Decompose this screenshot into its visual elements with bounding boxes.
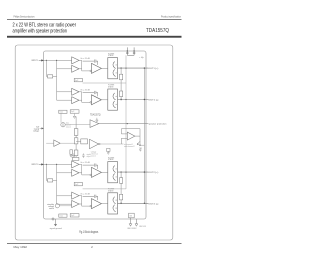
wire ch1p stage outputs	[79, 60, 90, 71]
wire input ch2 to amps	[44, 163, 72, 165]
junction dot buffer out	[127, 123, 128, 124]
bias box ch2m	[70, 214, 79, 217]
cap ref symbol	[82, 153, 84, 158]
wire output ch1m	[118, 99, 149, 101]
bias box ch1m	[70, 110, 79, 113]
wire ch1p stage2 out	[79, 68, 82, 70]
feedback resistor ch2	[48, 179, 53, 182]
power stage box ch1m	[108, 89, 118, 110]
output transistor curve ch1p upper	[113, 62, 116, 69]
wire ch2m stage2 out	[79, 203, 82, 205]
figure outer box	[15, 45, 173, 240]
wire T7 output	[60, 142, 74, 144]
op-amp ch2p input stage 2	[72, 169, 79, 176]
transistor dot upper	[115, 167, 118, 170]
wire rail to stage4 ch2	[57, 203, 72, 205]
mute box ch1	[59, 110, 67, 113]
svg-text:INPUT 2: INPUT 2	[32, 164, 39, 166]
wire T7 input	[46, 142, 54, 144]
inverting input bubble ch2m	[90, 205, 92, 207]
svg-text:Product specification: Product specification	[161, 14, 181, 18]
signal ground symbol	[54, 224, 57, 226]
svg-text:speaker protection: speaker protection	[149, 123, 168, 126]
op-amp ch1m input stage 1	[72, 88, 79, 95]
BTL feedback resistor ch1	[120, 74, 123, 80]
wire output ch1p	[118, 67, 149, 69]
signal ground stub	[55, 219, 57, 224]
op-amp ch2m input stage 1	[72, 192, 79, 199]
svg-text:Gv = 26 dB: Gv = 26 dB	[80, 58, 90, 60]
capacitor ch2m coupling	[83, 195, 98, 200]
junction dot sense OUT1+	[144, 67, 145, 68]
bottom box	[129, 213, 135, 218]
IC chip outline	[44, 51, 147, 219]
zener D1	[139, 148, 141, 151]
standby circle	[55, 204, 59, 208]
wire ch1m stage outputs	[79, 92, 90, 103]
ground ref symbol b	[96, 118, 98, 122]
protection sense rail	[143, 68, 145, 203]
capacitor ch1p coupling	[83, 60, 98, 65]
svg-text:STAGE: STAGE	[108, 54, 114, 57]
svg-text:Gv = 26 dB: Gv = 26 dB	[80, 162, 90, 164]
feedback rail ch1	[46, 60, 47, 76]
junction dot input ch1	[46, 60, 47, 61]
svg-text:STAGE: STAGE	[108, 158, 114, 161]
junction dot rail ch1	[56, 60, 57, 61]
divider rail	[75, 117, 77, 158]
op-amp ch2p input stage 1	[72, 161, 79, 168]
capacitor ch1m coupling	[83, 91, 98, 96]
output transistor curve ch1m upper	[113, 93, 116, 100]
op-amp ch1p input stage 1	[72, 57, 79, 64]
transistor dot lower	[115, 71, 118, 74]
current source circle	[61, 123, 65, 127]
op-amp ch1m input stage 2	[72, 97, 79, 104]
footer rule	[7, 243, 182, 245]
svg-text:OUT2 (+): OUT2 (+)	[148, 172, 158, 174]
wire ch1m stage2 out	[79, 99, 82, 101]
comparator box ground	[107, 151, 109, 154]
junction dot Vp left	[127, 50, 128, 51]
transistor Q1 emitter arrow	[137, 141, 140, 144]
divider bottom box	[72, 157, 79, 160]
output transistor curve ch2p lower	[113, 174, 116, 181]
BTL feedback line ch1	[120, 68, 122, 99]
junction dot rail ch2	[56, 164, 57, 165]
power stage box ch2m	[108, 193, 118, 214]
junction dot output ch2m	[120, 203, 121, 204]
wire power amp to stage ch2m	[101, 203, 107, 205]
transistor Q1 collector line	[139, 136, 141, 145]
transistor dot lower	[115, 103, 118, 106]
junction dot rail OUT1-	[125, 99, 126, 100]
svg-text:source: source	[66, 126, 71, 129]
wire comparator out	[100, 143, 123, 145]
output transistor curve ch2m lower	[113, 205, 116, 212]
wire rail to stage2 ch2	[57, 172, 72, 174]
wire input ch1 to amps	[44, 59, 72, 61]
wire box to current source	[60, 114, 62, 123]
GND2 stub	[135, 219, 137, 224]
svg-text:Vp/2: Vp/2	[71, 111, 74, 113]
bias box ch1p	[74, 78, 82, 81]
svg-text:MBC438: MBC438	[139, 226, 146, 228]
junction dot sense OUT2-	[144, 203, 145, 204]
capacitor C1 plates	[126, 52, 128, 53]
inverting input bubble ch1m	[90, 102, 92, 104]
svg-text:source: source	[91, 155, 96, 158]
wire feedback resistor to rail ch2	[53, 179, 57, 181]
wire ch2m stage outputs	[79, 196, 90, 207]
wire Vp rail stub right	[133, 47, 135, 55]
BTL feedback resistor ch2	[120, 178, 123, 184]
transistor dot upper	[115, 63, 118, 66]
transistor dot upper	[115, 95, 118, 98]
comparator U6 bubble	[99, 143, 101, 145]
svg-text:OUT1 (+): OUT1 (+)	[148, 68, 158, 70]
op-amp ch1p power driver	[92, 63, 102, 73]
op-amp ch1p input stage 2	[72, 65, 79, 72]
input arrow INPUT 2	[39, 164, 44, 166]
wire standby to amps	[59, 205, 71, 207]
power stage box ch2p	[108, 162, 118, 183]
input dist rail ch1	[56, 60, 58, 100]
wire rail to stage2 ch1	[57, 68, 72, 70]
ground ref symbol a	[73, 114, 76, 119]
header rule	[7, 19, 182, 21]
svg-text:TDA1557Q: TDA1557Q	[146, 28, 169, 34]
wire feedback resistor to rail ch1	[53, 75, 57, 77]
wire cap bus	[127, 54, 134, 56]
svg-text:Fig.1 Block diagram.: Fig.1 Block diagram.	[79, 230, 99, 234]
svg-text:INPUT 1: INPUT 1	[32, 60, 39, 62]
op-amp ch2m power driver	[92, 199, 102, 209]
svg-text:Vp/2: Vp/2	[75, 184, 78, 186]
svg-text:Gv = 26 dB: Gv = 26 dB	[80, 90, 90, 92]
inverting input bubble ch2p	[90, 174, 92, 176]
output transistor curve ch1p lower	[113, 70, 116, 77]
input arrow INPUT 1	[39, 60, 44, 62]
junction dot BTL ch1	[120, 99, 121, 100]
wire rail to stage3 ch1	[57, 91, 72, 93]
BTL feedback resistor ch2 b	[120, 194, 123, 200]
svg-text:switch: switch	[49, 207, 54, 210]
svg-text:STAGE: STAGE	[108, 189, 114, 192]
wire rail to stage3 ch2	[57, 195, 72, 197]
reference box	[81, 139, 88, 144]
divider resistor R3	[74, 129, 78, 136]
wire U7 lower input	[121, 138, 127, 144]
junction dot input ch2	[46, 164, 47, 165]
power stage box ch1p	[108, 58, 118, 79]
resistor R6 vertical	[70, 150, 73, 155]
wire divider to reference box	[76, 140, 81, 142]
supply rail vertical	[83, 55, 126, 189]
svg-text:OUT2 (-): OUT2 (-)	[148, 203, 158, 205]
GND2 symbol	[135, 224, 138, 226]
bias box ch2p	[74, 182, 82, 185]
wire Q1 to sense rail	[140, 144, 144, 146]
svg-text:OUT1 (-): OUT1 (-)	[148, 100, 158, 102]
ground R6	[70, 154, 73, 157]
input dist rail ch2	[56, 164, 58, 204]
svg-text:voltage: voltage	[33, 130, 39, 133]
wire Vp rail stub left	[126, 47, 128, 55]
svg-text:amplifier with speaker protect: amplifier with speaker protection	[13, 28, 68, 34]
feedback rail ch2	[46, 164, 47, 180]
wire buffer out to pin	[99, 123, 149, 125]
junction dot sense OUT1-	[144, 99, 145, 100]
junction dot BTL ch2	[120, 203, 121, 204]
title rule	[7, 36, 182, 38]
op-amp buffer U5	[90, 120, 99, 128]
transistor dot upper	[115, 199, 118, 202]
transistor dot lower	[115, 207, 118, 210]
svg-text:STAGE: STAGE	[108, 86, 114, 89]
comparator U6	[90, 139, 99, 148]
wire power amp to stage ch1m	[101, 99, 107, 101]
junction dot output ch2p	[120, 171, 121, 172]
GND1 stub	[130, 218, 132, 224]
GND1 symbol	[129, 224, 132, 226]
feedback resistor ch1	[48, 75, 53, 78]
wire rail to stage4 ch1	[57, 99, 72, 101]
output transistor curve ch1m lower	[113, 101, 116, 108]
op-amp ch2m input stage 2	[72, 201, 79, 208]
svg-text:Vp/2: Vp/2	[71, 215, 74, 217]
junction dot rail OUT2+	[125, 172, 126, 173]
half supply arrow	[40, 128, 44, 130]
mute box ch2	[59, 214, 67, 217]
divider resistor R4	[74, 138, 78, 144]
BTL feedback resistor ch1 b	[120, 91, 123, 97]
wire U7 feedback loop	[121, 129, 140, 136]
junction dot Vp right	[133, 50, 134, 51]
transistor dot lower	[115, 175, 118, 178]
divider resistor R5	[74, 150, 78, 156]
output transistor curve ch2m upper	[113, 197, 116, 204]
op-amp ch1m power driver	[92, 95, 102, 105]
output transistor curve ch2p upper	[113, 166, 116, 173]
current source arrow	[62, 123, 64, 126]
wire ch2p stage2 out	[79, 172, 82, 174]
wire current source to buffer	[65, 124, 90, 126]
junction dot output ch1m	[120, 99, 121, 100]
BTL feedback line ch2	[120, 172, 122, 203]
wire ch2p stage outputs	[79, 164, 90, 175]
svg-text:Vp/2: Vp/2	[75, 80, 78, 82]
svg-text:Gv = 26 dB: Gv = 26 dB	[80, 193, 90, 195]
capacitor ch2p coupling	[83, 164, 98, 169]
wire power amp to stage ch2p	[101, 171, 107, 173]
op-amp ch2p power driver	[92, 167, 102, 177]
junction dot rail OUT1+	[125, 68, 126, 69]
junction dot Q1	[139, 145, 140, 146]
op-amp T7 half supply buffer	[54, 140, 60, 146]
op-amp protection U7	[127, 132, 135, 140]
svg-text:TDA1557Q: TDA1557Q	[90, 112, 101, 116]
capacitor C2 plates	[133, 52, 135, 53]
wire power amp to stage ch1p	[101, 67, 107, 69]
svg-text:GND1 GND2: GND1 GND2	[127, 228, 136, 230]
svg-text:Philips Semiconductors: Philips Semiconductors	[14, 14, 35, 18]
svg-text:signal ground: signal ground	[50, 228, 62, 230]
signal ground pin circle	[52, 218, 54, 220]
wire output ch2p	[118, 171, 149, 173]
svg-text:May 1992: May 1992	[14, 245, 28, 249]
svg-text:reject: reject	[87, 155, 92, 158]
ground ref symbol c	[73, 153, 75, 157]
junction dot sense OUT2+	[144, 171, 145, 172]
wire output ch2m	[118, 202, 149, 204]
comparator output box	[107, 148, 110, 151]
svg-text:and channel 2: and channel 2	[124, 146, 135, 148]
junction dot output ch1p	[120, 67, 121, 68]
inverting input bubble ch1p	[90, 70, 92, 72]
